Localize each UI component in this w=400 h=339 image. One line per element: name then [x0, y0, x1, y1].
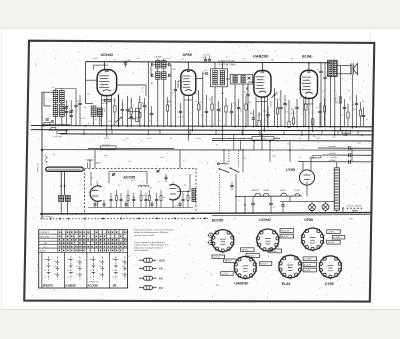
wire rod coil to ground [60, 202, 62, 214]
svg-text:18a: 18a [90, 259, 93, 261]
svg-text:REGOLAZ.: REGOLAZ. [40, 235, 51, 238]
svg-text:100p: 100p [168, 104, 170, 108]
resistor R19 [245, 104, 247, 110]
coil L17 FM interstage [138, 185, 149, 187]
capacitor C21 [217, 108, 220, 110]
wire stub [321, 130, 323, 134]
socket ECC85 value boxes [241, 248, 255, 252]
svg-text:5a: 5a [67, 270, 69, 272]
wire IFT1 connections [157, 68, 159, 72]
resistor R37 FM [149, 196, 151, 201]
svg-text:UY85: UY85 [286, 168, 296, 172]
wire rectifier line 3 [298, 161, 371, 163]
svg-text:ca 100: ca 100 [275, 99, 280, 101]
svg-text:ca 1n: ca 1n [88, 192, 92, 194]
resistor R27 [305, 104, 307, 110]
svg-text:1M: 1M [291, 109, 294, 111]
svg-text:0,5: 0,5 [219, 120, 221, 122]
svg-text:ca 100: ca 100 [303, 104, 308, 106]
capacitor C34 heater bypass [269, 202, 273, 204]
resistor R25 [292, 118, 294, 124]
wire stub [259, 130, 261, 134]
svg-text:ca 255V: ca 255V [304, 259, 312, 261]
wire ferrite rod drops [60, 171, 62, 195]
socket EL84 value boxes [268, 249, 282, 253]
wire stub [147, 130, 149, 134]
svg-text:4n: 4n [63, 106, 65, 109]
svg-text:25p: 25p [131, 119, 135, 121]
wire UCH41 inner top lead [94, 64, 109, 66]
wire AGC bus [42, 149, 372, 152]
svg-text:valore indicato: valore indicato [134, 249, 149, 252]
svg-text:5A 0,77: 5A 0,77 [260, 262, 268, 265]
wire left hlink [42, 124, 70, 126]
socket view UY85 [319, 256, 341, 278]
svg-text:ca 3: ca 3 [285, 112, 288, 114]
capacitor C38 [355, 102, 358, 104]
socket view UABC80 [234, 256, 256, 278]
coil L7 IFT1 primary [156, 61, 160, 68]
trimmer FM 1 [112, 173, 115, 175]
wire dropper leads [336, 162, 338, 168]
wire local AGC segment [88, 148, 174, 150]
svg-text:2 W: 2 W [158, 278, 164, 280]
svg-text:ca 3: ca 3 [149, 187, 152, 189]
svg-text:ca 50k: ca 50k [200, 105, 202, 110]
svg-text:82k: 82k [250, 113, 253, 115]
svg-text:0,1: 0,1 [201, 115, 204, 117]
svg-text:FONO: FONO [40, 251, 46, 253]
svg-text:CONTATTI: CONTATTI [40, 231, 50, 234]
svg-text:0,1: 0,1 [235, 105, 237, 107]
svg-text:1k: 1k [341, 115, 343, 117]
wire UF89 cathode drops [183, 95, 185, 126]
capacitor C24 [237, 106, 240, 108]
resistor R16 [225, 106, 227, 112]
resistor R33 FM [127, 196, 129, 201]
svg-text:parte in cornice a MF: parte in cornice a MF [133, 234, 155, 237]
wire UF89 anode lead right [196, 78, 203, 80]
svg-text:18a: 18a [112, 259, 115, 261]
capacitor C23 [230, 110, 233, 112]
capacitor C26 [252, 117, 255, 119]
svg-text:0,1: 0,1 [299, 97, 301, 99]
svg-text:5a: 5a [45, 270, 47, 272]
capacitor C19 [179, 110, 182, 112]
wire EL84 anode to transformer [308, 63, 310, 71]
FM bottom extra caps [94, 203, 97, 205]
svg-text:5k: 5k [170, 138, 172, 140]
wire chassis second line right [212, 215, 370, 216]
legend resistor 2W [139, 277, 144, 279]
wire IFT2 connections [214, 63, 216, 69]
svg-text:9a: 9a [99, 273, 101, 275]
capacitor C6 coupling [174, 88, 177, 90]
wire stub [111, 130, 113, 134]
svg-text:12a: 12a [54, 266, 57, 268]
resistor R21 [258, 121, 260, 127]
svg-text:33p: 33p [248, 102, 251, 104]
trimmer CT1 [65, 106, 68, 108]
svg-text:1a: 1a [112, 277, 114, 279]
svg-text:6,8k: 6,8k [266, 117, 269, 119]
svg-text:UF89: UF89 [183, 53, 193, 57]
wire HT bus upper [31, 126, 372, 127]
table lower section columns [41, 252, 43, 288]
svg-text:ca 85V: ca 85V [328, 232, 335, 234]
switch S1 wafer [217, 163, 219, 165]
wire tube bottom links [256, 101, 268, 103]
transformer IFT2 shield box [211, 69, 228, 87]
svg-text:UABC80: UABC80 [251, 189, 259, 192]
resistor R39 FM [160, 196, 162, 201]
switch linkage dashed [228, 150, 230, 163]
wire osc coil drops [93, 116, 95, 125]
svg-text:500k: 500k [259, 112, 261, 116]
capacitor C28 [266, 113, 269, 115]
svg-text:33p: 33p [109, 207, 112, 209]
wire heater feed vertical [235, 174, 237, 196]
wire chassis ground bus [40, 213, 371, 214]
svg-text:UY85: UY85 [325, 282, 334, 286]
module FM tuner dashed box [85, 168, 196, 213]
svg-text:ca 25: ca 25 [303, 108, 305, 112]
svg-text:6,8k: 6,8k [221, 93, 224, 95]
svg-text:ca 1,1k: ca 1,1k [146, 105, 148, 110]
socket UF89 value boxes [327, 230, 341, 234]
capacitor C40 FM [110, 198, 113, 200]
junction on ground return [192, 217, 194, 219]
svg-text:12a: 12a [76, 266, 79, 268]
capacitor FM top 3 [165, 176, 168, 178]
svg-text:0 110 127 160 220: 0 110 127 160 220 [347, 205, 362, 207]
wire UCH41 top pin [103, 62, 105, 70]
antenna ferrite rod [46, 167, 83, 171]
svg-text:indicazioni specifiche del ti: indicazioni specifiche del tipo e [134, 246, 164, 249]
coil L9 IFT1 tert [156, 72, 160, 79]
svg-text:UCH41: UCH41 [101, 53, 113, 57]
resistor R35 FM [140, 196, 142, 201]
svg-text:50: 50 [143, 195, 145, 197]
left bus cluster boxes [44, 122, 50, 125]
wire antenna down-lead [41, 92, 43, 219]
wire output transformer secondary [337, 64, 351, 66]
wire stub [189, 130, 191, 134]
junction on ground return [138, 218, 140, 220]
transformer T1 output [328, 60, 338, 76]
capacitor CL1 [65, 110, 68, 112]
svg-text:6a 5,2V: 6a 5,2V [304, 264, 312, 266]
wire UABC80 drops [255, 97, 257, 126]
junction on ground return [102, 218, 104, 220]
coil L1 MW antenna [53, 90, 58, 102]
svg-text:1k: 1k [118, 185, 120, 187]
svg-text:ca 22k: ca 22k [201, 57, 206, 59]
svg-text:1/2 W: 1/2 W [159, 260, 166, 262]
svg-text:riapprovazione in MΩ o µF dove: riapprovazione in MΩ o µF dove non [134, 245, 169, 247]
wire stub [345, 130, 347, 134]
resistor R2 osc grid [130, 108, 132, 114]
junction ground dots [41, 213, 43, 215]
svg-text:giallo: giallo [104, 155, 108, 157]
svg-text:82k: 82k [182, 116, 185, 118]
wire FM box internals bottom rail [88, 207, 193, 209]
wire FM top links [108, 172, 110, 184]
svg-text:2k: 2k [162, 197, 165, 199]
svg-text:ca: ca [96, 181, 98, 183]
resistor R3 [139, 103, 141, 109]
svg-text:3a: 3a [54, 261, 56, 263]
coil L1b MW antenna lower [53, 104, 58, 116]
svg-text:500: 500 [199, 102, 202, 104]
wire rectifier line 2 [322, 154, 371, 156]
svg-text:TIPO L.M.: TIPO L.M. [38, 162, 40, 172]
svg-text:UABC80: UABC80 [253, 54, 269, 58]
resistor R14 [211, 104, 213, 110]
wire EL84 drops [303, 98, 305, 126]
capacitor C2 padder [126, 108, 130, 110]
coil L14 ratio det b [241, 76, 245, 83]
table header rows [39, 233, 128, 235]
resistor R31 [347, 112, 349, 118]
svg-text:5a: 5a [90, 270, 92, 272]
socket view EL84 [279, 255, 302, 278]
coil L2b LW antenna lower [60, 104, 65, 116]
socket UABC80 value boxes [224, 259, 237, 263]
svg-text:0,5: 0,5 [299, 157, 301, 159]
svg-text:18a: 18a [67, 259, 70, 261]
coil L2 LW antenna [60, 90, 65, 102]
socket UY85 value boxes [332, 235, 345, 239]
svg-text:ca 1n: ca 1n [233, 103, 237, 105]
wire stub [301, 130, 303, 134]
wire left cluster links [55, 103, 57, 105]
resistor R23 [276, 108, 278, 114]
svg-text:ca 50µF: ca 50µF [329, 146, 337, 148]
svg-text:ca 55V: ca 55V [222, 273, 229, 275]
svg-text:500: 500 [115, 89, 118, 91]
wire UF89 top pin [187, 62, 189, 70]
junction dots UABC80 [255, 125, 257, 127]
svg-text:ca: ca [317, 69, 319, 71]
svg-text:50: 50 [63, 116, 65, 118]
svg-text:FI 467 46,7 MHz: FI 467 46,7 MHz [219, 64, 237, 67]
tube ECC85 triode b [169, 185, 180, 200]
wire switch feeds [223, 150, 225, 164]
resistor R33 ca32V box [104, 99, 111, 101]
resistor R7 feedback [339, 97, 341, 103]
svg-text:ca 6: ca 6 [160, 157, 163, 159]
capacitor C32 [295, 106, 298, 108]
svg-text:ca 1n: ca 1n [170, 92, 174, 94]
coil L19 FM output [192, 189, 196, 202]
trimmer FM 2 [157, 170, 160, 172]
table column grid [57, 230, 59, 253]
wire stub [337, 130, 339, 134]
svg-text:ca 2p: ca 2p [131, 180, 135, 182]
svg-text:ECC85: ECC85 [124, 175, 137, 179]
svg-text:5a: 5a [112, 270, 114, 272]
wire rectifier line 1 [318, 147, 371, 149]
svg-text:ca 32V: ca 32V [102, 103, 109, 105]
svg-text:ca 82 µµF: ca 82 µµF [53, 136, 63, 138]
wire stub [83, 130, 85, 134]
svg-text:25: 25 [208, 99, 211, 101]
resistor R5 [288, 122, 290, 128]
resistor R4 screen [198, 104, 200, 110]
heater bumps UABC80 UCH41 UF89 UY85 [255, 193, 261, 196]
resistor R8 on bus [342, 130, 351, 133]
svg-text:50: 50 [216, 145, 218, 147]
socket UCH41 value boxes [280, 229, 294, 233]
junction node antenna/AGC [41, 149, 43, 151]
diode D1 mark [248, 77, 251, 80]
wire antenna input loop [44, 91, 58, 93]
svg-text:ca 8n: ca 8n [240, 108, 242, 112]
coil L15 rod coupling a [59, 195, 64, 201]
coil L12 IFT2 secondary [220, 71, 224, 85]
svg-text:2: 2 [132, 105, 134, 107]
wire IFT1 feed verticals [147, 62, 149, 126]
svg-text:25p: 25p [312, 136, 316, 138]
junction on ground return [50, 218, 52, 220]
capacitor C18 C19 top [204, 59, 207, 61]
svg-text:ca: ca [52, 87, 54, 89]
junction node antenna/HT [41, 125, 43, 127]
lamp LP2 [322, 204, 329, 211]
svg-text:ca: ca [88, 123, 90, 125]
potentiometer volume [273, 88, 275, 126]
svg-text:Estensioni riportate a tension: Estensioni riportate a tensione zero, qu… [134, 228, 175, 231]
junction dots EL84 [303, 126, 305, 128]
svg-text:O MEDIE: O MEDIE [65, 284, 76, 287]
svg-text:9a: 9a [76, 273, 78, 275]
svg-text:300Ω: 300Ω [96, 162, 101, 164]
svg-text:ca 2,2 k: ca 2,2 k [102, 144, 110, 146]
capacitor C4 IFT1 [151, 63, 153, 66]
svg-text:ca 470k: ca 470k [335, 97, 338, 103]
svg-text:UCH41: UCH41 [259, 218, 271, 222]
coil L6 oscillator fb [97, 108, 102, 116]
svg-text:12a: 12a [99, 266, 102, 268]
wire filter cap drops [351, 148, 353, 162]
svg-text:ca 30: ca 30 [104, 108, 106, 112]
table contact marks [59, 231, 60, 233]
svg-text:9A 72,1: 9A 72,1 [242, 249, 250, 252]
resistor R41 FM [187, 196, 189, 201]
resistor R10 [114, 106, 116, 112]
antenna FM dipole mark [87, 159, 93, 161]
capacitor C3 [143, 104, 147, 106]
svg-text:82: 82 [299, 138, 301, 140]
capacitor C35 line filter [281, 204, 285, 206]
svg-text:25p: 25p [270, 59, 274, 61]
svg-text:12a: 12a [121, 266, 124, 268]
svg-text:ca 25: ca 25 [147, 138, 151, 140]
svg-text:P.U.: P.U. [349, 218, 353, 220]
wire stub [357, 130, 359, 134]
wire stub [215, 130, 217, 134]
svg-text:UABC80: UABC80 [234, 282, 248, 286]
svg-text:0,1: 0,1 [114, 59, 116, 61]
svg-text:1a: 1a [67, 277, 69, 279]
svg-text:2k: 2k [99, 120, 102, 122]
svg-text:ca 100: ca 100 [174, 206, 179, 208]
coil L11 IFT2 primary [213, 71, 217, 85]
svg-text:ca 40a: ca 40a [331, 156, 338, 159]
svg-text:2k: 2k [260, 137, 263, 139]
coil L10 IFT1 quat [162, 72, 166, 79]
svg-text:2k: 2k [225, 57, 228, 59]
wire stub [159, 130, 161, 134]
junction on ground return [59, 218, 61, 220]
svg-text:50: 50 [84, 107, 86, 109]
svg-text:4,7p: 4,7p [204, 69, 208, 72]
capacitor C1 [74, 104, 77, 106]
svg-text:10k: 10k [76, 101, 79, 103]
resistor R33 [359, 110, 361, 116]
junction dots third bus [83, 133, 85, 135]
connector phono jack 1 [209, 233, 213, 237]
trimmer CT2 [70, 110, 73, 112]
svg-text:9a: 9a [54, 273, 56, 275]
wire UCH41 anode loop top [85, 62, 87, 104]
junction on ground return [68, 218, 70, 220]
capacitor C9 [279, 106, 283, 108]
wire mid region links [233, 135, 235, 150]
capacitor C8 [246, 93, 250, 95]
svg-text:MF: MF [113, 284, 117, 287]
scan background top strip [0, 0, 400, 28]
svg-text:3a: 3a [76, 261, 78, 263]
svg-text:relative al funzionamento a: relative al funzionamento a MF dove [134, 231, 169, 234]
wire top B+ bus [86, 62, 331, 63]
svg-text:82k: 82k [87, 93, 90, 95]
legend resistor 3W [139, 287, 144, 289]
svg-text:100: 100 [173, 69, 176, 71]
wire stub [283, 130, 285, 134]
coil L8 IFT1 secondary [162, 61, 166, 68]
svg-text:EL84: EL84 [282, 282, 290, 286]
svg-text:ca: ca [316, 107, 318, 109]
svg-text:C18 C19: C18 C19 [203, 55, 210, 57]
junction on ground return [174, 218, 176, 220]
resistor R31 FM [116, 196, 118, 201]
svg-text:10n: 10n [148, 121, 151, 123]
coil L5 oscillator [91, 106, 96, 116]
capacitor C3b [130, 115, 133, 117]
svg-text:UCH41: UCH41 [263, 189, 269, 192]
capacitor C34 [318, 110, 321, 112]
capacitor C50 FM [182, 198, 185, 200]
svg-text:ca 250V: ca 250V [269, 251, 277, 253]
svg-text:m 9: m 9 [128, 161, 131, 163]
resistor R3b [139, 112, 141, 117]
svg-text:ca 470: ca 470 [104, 137, 109, 140]
junction dots on HT bus [85, 125, 87, 127]
svg-text:0,5: 0,5 [362, 101, 364, 103]
wire UCH41 cathode drops [101, 96, 103, 126]
svg-text:0,27M: 0,27M [220, 107, 222, 112]
svg-text:10: 10 [184, 185, 186, 187]
resistor R40 ca2.2k [101, 146, 117, 149]
svg-text:ca 100k: ca 100k [271, 101, 273, 107]
svg-text:9a: 9a [121, 273, 123, 275]
wire transformer primary drops [329, 76, 331, 126]
wire UY85 leads [302, 162, 304, 171]
wire AGC into FM box [94, 150, 96, 169]
junction dots UF89 [183, 125, 185, 127]
